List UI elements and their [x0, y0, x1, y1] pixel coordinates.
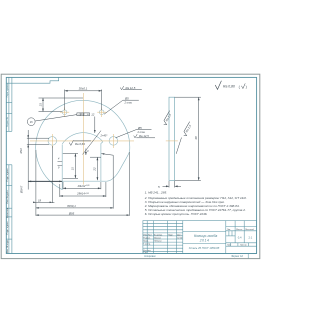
dim 15 slot [63, 154, 78, 179]
side view centerline [166, 140, 178, 142]
drawing frame [6, 77, 256, 253]
svg-text:Ø5: Ø5 [124, 96, 129, 100]
dim Ø9H7 bottom-left line [28, 180, 62, 182]
svg-text:Ø9Н7: Ø9Н7 [20, 185, 24, 194]
svg-text:): ) [246, 85, 247, 89]
title block grid [143, 221, 257, 254]
svg-text:Масса: Масса [236, 229, 243, 231]
svg-text:Формат А3: Формат А3 [231, 255, 243, 258]
svg-text:Ø95: Ø95 [68, 211, 75, 215]
svg-text:№ докум.: № докум. [154, 234, 163, 237]
hole top-right [99, 110, 104, 115]
technical notes [144, 191, 247, 217]
svg-text:Масштаб: Масштаб [245, 229, 254, 231]
main view outer circle [36, 100, 130, 189]
central dome arc [62, 133, 103, 144]
horizontal centerline [30, 140, 134, 142]
svg-text:Перв. примен.: Перв. примен. [7, 82, 9, 97]
svg-text:2014: 2014 [199, 239, 210, 243]
svg-text:Пров.: Пров. [143, 241, 149, 243]
svg-text:Инв. № подл.: Инв. № подл. [6, 239, 9, 253]
svg-text:Петров: Петров [154, 241, 161, 243]
bottom dim row4 80 [36, 155, 113, 208]
left margin bottom strip [6, 165, 12, 254]
hole right [109, 137, 118, 146]
dim 15 top [39, 98, 84, 112]
wall leader [101, 154, 113, 156]
svg-text:Копировал: Копировал [144, 256, 156, 258]
left margin top strip [6, 77, 12, 131]
slot bottom step [62, 180, 107, 182]
svg-text:1. НВ 241...285.: 1. НВ 241...285. [145, 191, 167, 195]
svg-text:12.14: 12.14 [177, 237, 183, 240]
dim Ø10 left hole [27, 130, 49, 190]
datum circle 1 [27, 118, 35, 126]
datum leader [35, 115, 77, 121]
bottom dim row5 D95 [36, 152, 129, 216]
copy / format row [247, 254, 249, 259]
right side cut arc [107, 151, 130, 181]
svg-text:Ø10: Ø10 [19, 148, 23, 155]
sheet outline [1, 74, 260, 258]
svg-text:2:1: 2:1 [249, 236, 253, 240]
svg-text:Ra 12,5: Ra 12,5 [126, 86, 136, 90]
svg-text:Ra 0,80: Ra 0,80 [223, 85, 235, 89]
dim 5 thickness [163, 181, 182, 188]
svg-text:Подп. и дата: Подп. и дата [7, 168, 9, 182]
general roughness mark top right [215, 81, 221, 90]
svg-text:Иванов: Иванов [154, 238, 161, 240]
svg-text:Ra 0,63: Ra 0,63 [75, 142, 85, 146]
svg-text:12: 12 [91, 113, 95, 117]
dim 48 side [175, 97, 201, 180]
svg-text:Инв. № дубл.: Инв. № дубл. [6, 190, 9, 204]
centerline crosses top holes [60, 108, 106, 118]
svg-text:Утв.: Утв. [143, 252, 147, 254]
hole left [48, 137, 57, 146]
centerline bottom holes [52, 134, 113, 148]
svg-text:18: 18 [38, 199, 42, 203]
side roughness Ra 2,5 inner [176, 138, 181, 154]
hole top-left [62, 110, 67, 115]
svg-text:Ra 12,5: Ra 12,5 [139, 134, 149, 138]
top-left application box [6, 77, 58, 83]
svg-text:Справ. №: Справ. № [6, 116, 9, 127]
slot right wall [101, 142, 103, 182]
svg-text:48: 48 [194, 136, 198, 140]
dim 30 line [65, 90, 102, 92]
svg-text:15: 15 [39, 103, 43, 107]
callout 2 holes top-right [104, 86, 142, 114]
left margin bottom strip labels [6, 168, 9, 253]
svg-text:1б: 1б [30, 120, 33, 124]
bottom dim row3 18 [34, 146, 55, 216]
svg-text:Разраб.: Разраб. [143, 238, 151, 240]
svg-text:Подп.: Подп. [168, 235, 174, 237]
svg-text:Листов: Листов [240, 245, 247, 247]
slot left wall [61, 144, 63, 189]
side view rectangle [169, 97, 175, 180]
chamfer leader diagonal [83, 131, 102, 155]
title block small labels [143, 229, 255, 254]
svg-text:80±0,1: 80±0,1 [67, 204, 76, 208]
svg-text:Подп. и дата: Подп. и дата [7, 221, 9, 235]
feature control frame [77, 113, 90, 116]
svg-text:Лист: Лист [227, 245, 231, 247]
svg-text:Кольцо-скоба: Кольцо-скоба [194, 234, 217, 238]
svg-text:Лит.: Лит. [227, 229, 231, 231]
svg-text:Взам. инв.: Взам. инв. [7, 207, 9, 218]
vertical centerline [82, 93, 84, 185]
bottom dim row1 29H12 [63, 182, 101, 189]
svg-text:Т.контр.: Т.контр. [143, 244, 151, 246]
svg-text:15: 15 [70, 167, 74, 171]
svg-text:Сталь 45 ГОСТ 1050-88: Сталь 45 ГОСТ 1050-88 [189, 246, 220, 250]
callout 2 holes mid-right [116, 130, 155, 138]
svg-text:22: 22 [93, 167, 97, 172]
svg-text:6. Острые кромки притупить. ГО: 6. Острые кромки притупить. ГОСТ 2246. [145, 212, 208, 216]
svg-text:2×45°: 2×45° [100, 134, 108, 138]
svg-text:Изм Лист: Изм Лист [143, 235, 152, 237]
bottom dim row2 29H14 [60, 182, 106, 197]
svg-text:30±0,1: 30±0,1 [79, 86, 88, 90]
svg-text:2 отв.: 2 отв. [124, 101, 133, 105]
dim 30 ext lines [65, 90, 102, 111]
dome roughness Ra 0,63 [69, 140, 91, 145]
svg-text:Ø5: Ø5 [137, 126, 142, 130]
dim 3 small [85, 149, 87, 156]
svg-text:0,4: 0,4 [238, 236, 242, 240]
dim 22 slot right [90, 157, 101, 180]
side roughness Ra 2,5 left [162, 111, 173, 126]
